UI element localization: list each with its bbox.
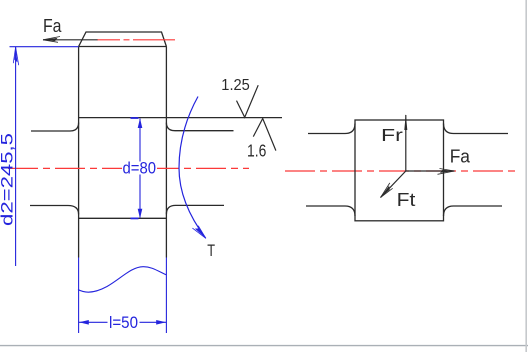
svg-text:1.25: 1.25 xyxy=(221,77,250,94)
hub line top xyxy=(79,117,282,119)
gear body right edge xyxy=(165,47,167,258)
torque arrowhead xyxy=(192,224,207,240)
dimension d2 arrow xyxy=(13,47,18,65)
hub line bottom xyxy=(79,217,167,219)
roughness symbol 1.25 xyxy=(237,85,259,117)
roughness symbol 1.6 xyxy=(253,119,276,151)
svg-text:l=50: l=50 xyxy=(109,314,138,332)
centerline main left (red dash-dot) xyxy=(8,167,249,169)
gear body top edge xyxy=(79,46,167,48)
dimension l=50 extension line right xyxy=(165,258,167,334)
gear body left edge xyxy=(78,47,80,258)
label l=50 mask xyxy=(108,316,140,330)
break wavy line xyxy=(78,267,166,292)
force Fa arrowhead (left) xyxy=(43,37,60,43)
dimension l=50 line xyxy=(79,321,167,323)
dimension d2 line xyxy=(15,47,17,266)
svg-text:1.6: 1.6 xyxy=(247,140,266,160)
side shaft stub bottom-right xyxy=(444,206,503,216)
force Ft line xyxy=(381,171,406,198)
side view gear rect xyxy=(355,120,444,221)
svg-text:Ft: Ft xyxy=(397,190,416,210)
svg-text:Fr: Fr xyxy=(381,125,403,145)
dimension l=50 extension line left xyxy=(78,258,80,334)
force Fa line (right) xyxy=(406,170,455,172)
side shaft stub top-left xyxy=(308,124,355,134)
svg-text:d2=245,5: d2=245,5 xyxy=(0,133,17,226)
torque arc T xyxy=(179,97,206,239)
dimension l=50 arrows xyxy=(79,320,89,325)
shaft stub top-left xyxy=(31,123,79,131)
dimension d=80 arrows xyxy=(138,118,143,128)
dimension d=80 line xyxy=(139,119,141,218)
svg-text:d=80: d=80 xyxy=(123,160,157,178)
force Fr line xyxy=(405,115,407,171)
force Ft arrowhead xyxy=(378,183,394,199)
shaft stub bottom-left xyxy=(30,206,79,215)
svg-text:Fa: Fa xyxy=(43,16,62,36)
centerline cap (red dash-dot) xyxy=(97,39,175,41)
centerline right (red dash-dot) xyxy=(285,170,520,172)
side shaft stub bottom-left xyxy=(306,206,355,216)
gear top cap chamfer xyxy=(79,32,167,47)
shaft stub top-right xyxy=(166,123,233,131)
shaft stub bottom-right xyxy=(166,205,224,214)
svg-text:Fa: Fa xyxy=(450,146,471,167)
svg-text:T: T xyxy=(207,241,215,260)
label d=80 mask xyxy=(122,162,157,175)
dimension d2=245,5 extension line xyxy=(10,46,79,48)
side shaft stub top-right xyxy=(444,124,509,134)
force Fa line (left) xyxy=(43,39,98,41)
force Fa arrowhead (right) xyxy=(438,169,455,175)
force Fr arrowhead xyxy=(404,114,407,130)
